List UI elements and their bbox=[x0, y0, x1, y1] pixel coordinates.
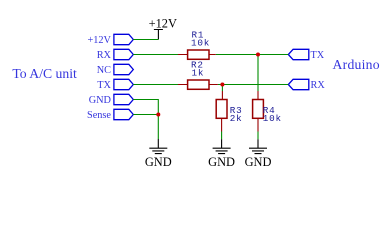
ground under R3 bbox=[208, 139, 235, 169]
svg-text:+12V: +12V bbox=[87, 35, 111, 46]
resistor R4 bbox=[253, 91, 282, 132]
power +12V symbol bbox=[149, 17, 177, 40]
svg-text:To A/C unit: To A/C unit bbox=[12, 66, 77, 81]
connector pin TX port bbox=[114, 79, 133, 89]
wire +12V row bbox=[133, 39, 158, 41]
wire junction to R3 bbox=[221, 85, 223, 92]
svg-text:GND: GND bbox=[145, 155, 172, 169]
svg-text:10k: 10k bbox=[191, 38, 210, 49]
wire R3 to ground bbox=[221, 132, 223, 140]
svg-text:Sense: Sense bbox=[87, 110, 111, 121]
svg-text:GND: GND bbox=[89, 95, 112, 106]
connector pin NC port bbox=[114, 64, 133, 74]
svg-text:NC: NC bbox=[97, 65, 111, 76]
ground under Sense junction bbox=[145, 139, 172, 169]
connector pin GND port bbox=[114, 94, 133, 104]
svg-text:Arduino: Arduino bbox=[333, 57, 380, 72]
connector pin RX port bbox=[114, 49, 133, 59]
svg-text:TX: TX bbox=[97, 80, 111, 91]
svg-text:GND: GND bbox=[208, 155, 235, 169]
svg-text:2k: 2k bbox=[230, 113, 243, 124]
svg-text:GND: GND bbox=[245, 155, 272, 169]
wire GND row bbox=[133, 100, 158, 140]
resistor R2 bbox=[178, 60, 218, 90]
wire RX row to R1 bbox=[133, 54, 178, 56]
svg-text:10k: 10k bbox=[263, 113, 282, 124]
resistor R1 bbox=[178, 30, 216, 60]
wire Sense row bbox=[133, 114, 158, 116]
wire R2 junction to Arduino RX bbox=[218, 84, 288, 86]
svg-text:TX: TX bbox=[311, 50, 325, 61]
svg-text:RX: RX bbox=[311, 80, 326, 91]
wire TX row to R2 bbox=[133, 84, 178, 86]
wire R4 to ground bbox=[257, 132, 259, 140]
ground under R4 bbox=[245, 139, 272, 169]
junction node GND/Sense bbox=[156, 113, 160, 117]
svg-text:1k: 1k bbox=[192, 67, 205, 78]
junction node TX/R1/R4 bbox=[256, 53, 260, 57]
wire node TX down to R4 bbox=[257, 55, 259, 92]
junction node RX/R2/R3 bbox=[220, 83, 224, 87]
svg-text:RX: RX bbox=[97, 50, 112, 61]
svg-text:+12V: +12V bbox=[149, 17, 177, 31]
Arduino TX port bbox=[288, 49, 309, 59]
Arduino RX port bbox=[288, 79, 309, 89]
wire R1 to Arduino TX bbox=[216, 54, 288, 56]
resistor R3 bbox=[216, 91, 242, 132]
connector pin +12V port bbox=[114, 34, 133, 44]
connector pin Sense port bbox=[114, 109, 133, 119]
